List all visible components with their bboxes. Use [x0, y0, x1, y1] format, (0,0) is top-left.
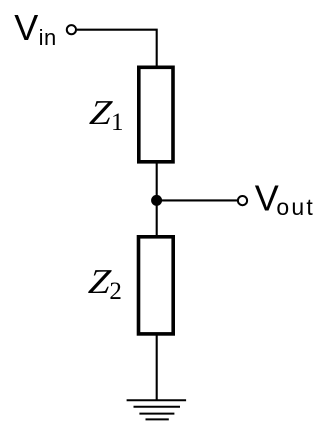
- svg-text:V: V: [14, 7, 38, 48]
- svg-text:in: in: [39, 25, 57, 50]
- ground (line 4): [146, 418, 169, 420]
- label Vout: [255, 177, 315, 220]
- label Z1: [88, 93, 124, 136]
- impedance Z2 (box): [139, 237, 174, 334]
- terminal Vin (open circle): [67, 25, 76, 34]
- wire node to top of Z2: [156, 200, 158, 236]
- ground (line 3): [139, 413, 174, 415]
- svg-text:2: 2: [109, 278, 122, 305]
- ground (line 1): [127, 399, 187, 401]
- ground (line 2): [134, 406, 181, 408]
- label Vin: [14, 7, 56, 50]
- label Z2: [87, 262, 122, 305]
- node (junction dot): [151, 195, 162, 206]
- svg-text:1: 1: [111, 109, 124, 136]
- impedance Z1 (box): [139, 67, 173, 162]
- wire node to Vout terminal: [157, 199, 238, 201]
- svg-text:V: V: [255, 177, 279, 218]
- terminal Vout (open circle): [238, 196, 247, 205]
- svg-text:out: out: [276, 194, 315, 220]
- wire Z1 bottom to node: [156, 162, 158, 201]
- wire Z2 bottom to ground: [156, 334, 158, 400]
- wire Vin terminal to top of Z1: [77, 30, 157, 68]
- svg-text:Z: Z: [88, 93, 114, 132]
